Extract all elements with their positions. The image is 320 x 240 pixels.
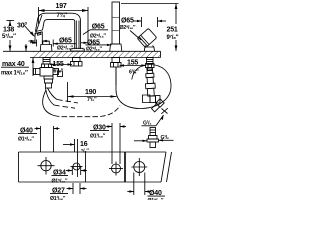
svg-text:Ø1¹/₁₆″: Ø1¹/₁₆″ <box>50 196 66 200</box>
vertical fitting chain under right valve <box>144 68 155 97</box>
svg-text:155: 155 <box>53 61 64 68</box>
svg-text:6¹/₈″: 6¹/₈″ <box>54 69 64 75</box>
deck cross-section with hatching <box>33 51 160 58</box>
spout outlet tip <box>35 30 42 32</box>
dim 251 <box>121 3 179 5</box>
dim 155 left <box>50 64 72 66</box>
hole 4 <box>134 162 145 173</box>
spout escutcheon dim arrow <box>81 42 88 44</box>
right handle (tilted knob) <box>137 28 157 47</box>
svg-text:138: 138 <box>3 27 14 34</box>
right handle shank below deck <box>147 58 154 64</box>
svg-text:Ø2⁹/₁₆″: Ø2⁹/₁₆″ <box>57 46 74 52</box>
spout shank below deck <box>73 58 81 62</box>
dim 155 right <box>120 65 147 67</box>
svg-text:Ø1⁹/₁₆″: Ø1⁹/₁₆″ <box>18 137 35 143</box>
dim 197 <box>38 7 40 24</box>
pillar shank below deck <box>112 58 120 63</box>
svg-text:155: 155 <box>127 60 138 67</box>
hand shower hose loop <box>116 65 171 109</box>
dim dia40 hole4 <box>133 173 135 196</box>
svg-text:Ø1⁹/₁₆″: Ø1⁹/₁₆″ <box>148 198 165 200</box>
svg-text:Ø65: Ø65 <box>59 38 72 45</box>
spout base flange <box>71 48 85 51</box>
spout body <box>35 13 80 49</box>
dim 138 <box>7 20 15 22</box>
svg-text:16: 16 <box>80 141 88 148</box>
elbow to the right <box>143 95 151 103</box>
left handle <box>43 41 50 44</box>
svg-text:190: 190 <box>85 89 96 96</box>
hand shower pillar <box>112 2 120 44</box>
svg-text:Ø2⁹/₁₆″: Ø2⁹/₁₆″ <box>86 47 103 53</box>
svg-text:Ø1³/₁₆″: Ø1³/₁₆″ <box>90 134 106 140</box>
left valve below deck <box>43 58 50 65</box>
hole 1 <box>41 161 51 171</box>
diagonal hose end <box>151 99 164 112</box>
left handle dia 65 dim <box>36 40 38 47</box>
svg-text:Ø65: Ø65 <box>121 18 134 25</box>
svg-text:5⁷/₁₆″: 5⁷/₁₆″ <box>2 34 16 40</box>
svg-text:7¹/₂″: 7¹/₂″ <box>87 97 97 103</box>
svg-text:30°: 30° <box>17 22 27 30</box>
svg-text:197: 197 <box>56 3 67 10</box>
svg-text:max 1⁹/₁₆″: max 1⁹/₁₆″ <box>1 71 28 77</box>
svg-text:Ø1⁵/₁₆″: Ø1⁵/₁₆″ <box>52 179 68 185</box>
svg-text:251: 251 <box>167 27 178 34</box>
plan view rectangle <box>19 152 167 182</box>
hole 3 <box>112 164 121 173</box>
dim 16 <box>74 139 76 152</box>
svg-text:9⁷/₈″: 9⁷/₈″ <box>167 35 179 41</box>
hole 2 <box>73 163 80 170</box>
hoses from left valve <box>48 88 58 100</box>
right handle dim arrows <box>141 17 143 27</box>
svg-text:⁵/₈″: ⁵/₈″ <box>81 149 89 155</box>
dim 190 <box>67 82 69 102</box>
svg-text:7¾″: 7¾″ <box>57 12 68 19</box>
outlet width ticks <box>34 33 36 44</box>
lower G1/2 fitting <box>150 128 156 136</box>
svg-text:Ø2⁹/₁₆″: Ø2⁹/₁₆″ <box>120 25 137 31</box>
